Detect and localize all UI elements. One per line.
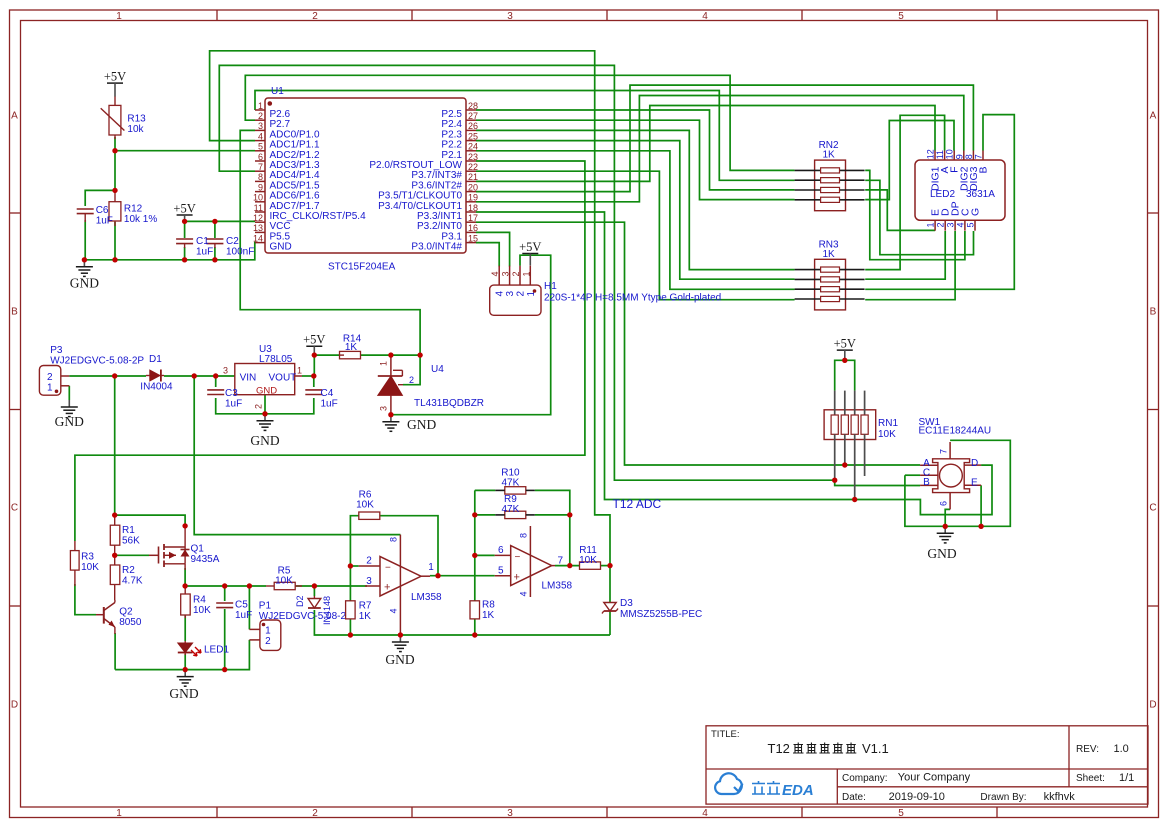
svg-text:+5V: +5V [834, 337, 856, 351]
svg-text:1: 1 [379, 361, 389, 366]
svg-text:11: 11 [935, 150, 945, 159]
svg-text:MMSZ5255B-PEC: MMSZ5255B-PEC [620, 609, 702, 620]
svg-text:P3.0/INT4#: P3.0/INT4# [411, 242, 462, 253]
svg-text:1K: 1K [482, 610, 495, 621]
svg-text:GND: GND [70, 276, 99, 291]
svg-text:+5V: +5V [303, 333, 325, 347]
svg-text:10: 10 [945, 149, 955, 159]
svg-text:1: 1 [47, 383, 53, 394]
svg-text:11: 11 [254, 203, 263, 213]
svg-text:E: E [971, 478, 978, 489]
svg-text:+: + [384, 582, 390, 594]
svg-text:2: 2 [511, 271, 521, 276]
svg-text:A: A [11, 111, 18, 122]
svg-text:V1.1: V1.1 [862, 741, 889, 756]
svg-text:5: 5 [498, 566, 504, 577]
svg-text:10: 10 [253, 193, 263, 203]
svg-text:LM358: LM358 [411, 592, 442, 603]
svg-text:1K: 1K [822, 249, 835, 260]
svg-text:1: 1 [258, 101, 263, 111]
svg-text:7: 7 [558, 556, 564, 567]
svg-text:27: 27 [468, 111, 478, 121]
svg-text:3: 3 [501, 271, 511, 276]
svg-text:D1: D1 [149, 354, 162, 365]
svg-text:LED2: LED2 [930, 189, 955, 200]
svg-text:C3: C3 [225, 388, 238, 399]
svg-text:kkfhvk: kkfhvk [1044, 791, 1076, 803]
svg-text:1K: 1K [345, 342, 358, 353]
svg-text:D2: D2 [295, 595, 305, 607]
svg-text:10k 1%: 10k 1% [124, 214, 157, 225]
svg-text:C: C [11, 503, 18, 514]
svg-text:28: 28 [468, 101, 478, 111]
svg-text:21: 21 [468, 172, 478, 182]
svg-text:G: G [970, 208, 982, 216]
svg-text:6: 6 [498, 545, 504, 556]
svg-text:STC15F204EA: STC15F204EA [328, 262, 396, 273]
svg-text:Your Company: Your Company [898, 772, 971, 784]
svg-text:18: 18 [468, 203, 478, 213]
svg-text:5: 5 [898, 11, 904, 22]
svg-text:8: 8 [964, 154, 974, 159]
svg-text:VOUT: VOUT [269, 373, 297, 384]
svg-text:D: D [1149, 700, 1156, 711]
svg-text:9435A: 9435A [191, 554, 220, 565]
svg-text:8050: 8050 [119, 617, 142, 628]
svg-text:1: 1 [297, 366, 302, 376]
svg-text:4: 4 [495, 291, 506, 297]
svg-text:3: 3 [379, 406, 389, 411]
svg-text:7: 7 [939, 449, 949, 454]
svg-text:C5: C5 [235, 600, 248, 611]
svg-text:REV:: REV: [1076, 744, 1099, 755]
svg-text:4: 4 [389, 608, 399, 613]
svg-text:3: 3 [507, 808, 513, 819]
svg-text:GND: GND [927, 546, 956, 561]
svg-text:1: 1 [428, 562, 434, 573]
svg-text:LM358: LM358 [542, 581, 573, 592]
svg-text:T12 ADC: T12 ADC [613, 497, 662, 511]
svg-text:14: 14 [253, 233, 263, 243]
svg-text:GND: GND [55, 414, 84, 429]
svg-text:1uF: 1uF [225, 399, 242, 410]
svg-text:5: 5 [258, 142, 263, 152]
svg-text:1uF: 1uF [235, 610, 252, 621]
svg-text:B: B [1150, 307, 1157, 318]
svg-text:10K: 10K [579, 555, 597, 566]
svg-text:4: 4 [490, 271, 500, 276]
svg-text:T12: T12 [768, 741, 790, 756]
svg-text:10K: 10K [275, 576, 293, 587]
svg-text:R2: R2 [122, 565, 135, 576]
svg-text:TITLE:: TITLE: [711, 729, 740, 740]
svg-text:10K: 10K [356, 500, 374, 511]
svg-text:P3: P3 [50, 345, 63, 356]
svg-text:220S-1*4P H=8.5MM Ytype Gold-p: 220S-1*4P H=8.5MM Ytype Gold-plated [544, 293, 721, 304]
svg-text:1: 1 [265, 626, 271, 637]
svg-text:9: 9 [258, 182, 263, 192]
svg-text:1: 1 [116, 808, 122, 819]
svg-text:13: 13 [253, 223, 263, 233]
svg-text:12: 12 [926, 149, 936, 159]
svg-text:1: 1 [926, 223, 936, 228]
svg-text:A: A [1150, 111, 1157, 122]
svg-text:100nF: 100nF [226, 247, 254, 258]
svg-text:B: B [978, 167, 990, 174]
svg-text:WJ2EDGVC-5.08-2P: WJ2EDGVC-5.08-2P [259, 611, 353, 622]
svg-text:C2: C2 [226, 236, 239, 247]
svg-text:TL431BQDBZR: TL431BQDBZR [414, 398, 484, 409]
svg-text:R7: R7 [359, 601, 372, 612]
svg-text:8: 8 [519, 533, 529, 538]
svg-text:22: 22 [468, 162, 478, 172]
svg-text:2: 2 [254, 404, 264, 409]
svg-text:23: 23 [468, 152, 478, 162]
svg-text:4.7K: 4.7K [122, 576, 143, 587]
svg-text:B: B [923, 477, 930, 488]
svg-text:R1: R1 [122, 525, 135, 536]
svg-text:24: 24 [468, 142, 478, 152]
svg-text:C4: C4 [321, 388, 334, 399]
svg-text:Drawn By:: Drawn By: [980, 792, 1026, 803]
svg-text:+: + [514, 572, 520, 584]
svg-text:2: 2 [265, 636, 271, 647]
svg-text:26: 26 [468, 121, 478, 131]
svg-text:Q1: Q1 [191, 544, 205, 555]
svg-text:Date:: Date: [842, 792, 866, 803]
svg-text:2: 2 [312, 11, 318, 22]
svg-text:10K: 10K [81, 562, 99, 573]
svg-text:3: 3 [223, 366, 228, 376]
svg-text:GND: GND [385, 652, 414, 667]
svg-text:1uF: 1uF [96, 216, 113, 227]
svg-text:EC11E18244AU: EC11E18244AU [919, 426, 992, 437]
svg-text:R8: R8 [482, 600, 495, 611]
svg-text:7: 7 [258, 162, 263, 172]
svg-text:47K: 47K [502, 478, 520, 489]
svg-text:25: 25 [468, 131, 478, 141]
svg-text:19: 19 [468, 193, 478, 203]
svg-text:Sheet:: Sheet: [1076, 773, 1105, 784]
svg-text:GND: GND [250, 433, 279, 448]
svg-text:IN4148: IN4148 [322, 596, 332, 625]
svg-text:2019-09-10: 2019-09-10 [889, 791, 945, 803]
svg-text:+5V: +5V [104, 70, 126, 84]
svg-text:Company:: Company: [842, 773, 888, 784]
svg-text:3: 3 [507, 11, 513, 22]
svg-text:2: 2 [409, 375, 414, 385]
svg-text:3: 3 [366, 576, 372, 587]
svg-text:4: 4 [519, 591, 529, 596]
svg-text:R4: R4 [193, 595, 206, 606]
svg-text:−: − [385, 563, 391, 574]
svg-text:10K: 10K [878, 429, 896, 440]
svg-text:1K: 1K [359, 611, 372, 622]
svg-text:2: 2 [312, 808, 318, 819]
svg-text:3: 3 [946, 223, 956, 228]
svg-text:15: 15 [468, 233, 478, 243]
svg-text:R12: R12 [124, 204, 143, 215]
svg-text:D: D [11, 700, 18, 711]
svg-text:8: 8 [258, 172, 263, 182]
svg-text:16: 16 [468, 223, 478, 233]
svg-text:EDA: EDA [782, 782, 814, 799]
svg-text:1K: 1K [822, 150, 835, 161]
svg-text:3631A: 3631A [966, 189, 995, 200]
svg-text:C6: C6 [96, 205, 109, 216]
svg-text:C: C [1149, 503, 1156, 514]
svg-text:LED1: LED1 [204, 645, 229, 656]
svg-text:1/1: 1/1 [1119, 772, 1134, 784]
svg-text:+5V: +5V [173, 202, 195, 216]
svg-text:L78L05: L78L05 [259, 354, 293, 365]
svg-text:56K: 56K [122, 536, 140, 547]
svg-text:1: 1 [521, 271, 531, 276]
svg-text:C1: C1 [196, 236, 209, 247]
svg-text:GND: GND [407, 417, 436, 432]
svg-text:6: 6 [939, 501, 949, 506]
svg-text:12: 12 [253, 213, 263, 223]
svg-text:10k: 10k [127, 124, 144, 135]
svg-text:Q2: Q2 [119, 607, 133, 618]
svg-text:4: 4 [702, 808, 708, 819]
svg-text:+5V: +5V [519, 240, 541, 254]
svg-text:U1: U1 [271, 86, 284, 97]
svg-text:GND: GND [169, 686, 198, 701]
svg-text:2: 2 [258, 111, 263, 121]
svg-text:WJ2EDGVC-5.08-2P: WJ2EDGVC-5.08-2P [50, 356, 144, 367]
svg-text:4: 4 [258, 131, 263, 141]
svg-text:IN4004: IN4004 [140, 382, 173, 393]
svg-text:1uF: 1uF [196, 247, 213, 258]
svg-text:−: − [515, 552, 521, 563]
svg-text:47K: 47K [502, 504, 520, 515]
svg-text:6: 6 [258, 152, 263, 162]
svg-text:5: 5 [898, 808, 904, 819]
svg-text:2: 2 [47, 372, 53, 383]
svg-text:1.0: 1.0 [1114, 743, 1129, 755]
svg-text:R13: R13 [127, 114, 146, 125]
svg-text:5: 5 [966, 223, 976, 228]
svg-text:1: 1 [116, 11, 122, 22]
svg-text:4: 4 [955, 223, 965, 228]
svg-text:1uF: 1uF [321, 399, 338, 410]
svg-text:10K: 10K [193, 605, 211, 616]
svg-text:D3: D3 [620, 598, 633, 609]
svg-text:GND: GND [270, 242, 292, 253]
svg-text:2: 2 [366, 556, 372, 567]
svg-text:R3: R3 [81, 552, 94, 563]
svg-text:4: 4 [702, 11, 708, 22]
svg-text:P1: P1 [259, 601, 272, 612]
svg-text:2: 2 [936, 223, 946, 228]
svg-text:H1: H1 [544, 281, 557, 292]
svg-text:3: 3 [258, 121, 263, 131]
svg-text:7: 7 [974, 154, 984, 159]
svg-text:GND: GND [256, 386, 277, 397]
svg-text:B: B [11, 307, 18, 318]
svg-text:VIN: VIN [240, 373, 257, 384]
svg-text:20: 20 [468, 182, 478, 192]
svg-text:3: 3 [505, 291, 516, 297]
svg-text:17: 17 [468, 213, 478, 223]
svg-text:8: 8 [389, 537, 399, 542]
svg-text:9: 9 [954, 154, 964, 159]
svg-text:D: D [971, 458, 978, 469]
svg-text:U4: U4 [431, 364, 444, 375]
svg-text:RN1: RN1 [878, 418, 898, 429]
